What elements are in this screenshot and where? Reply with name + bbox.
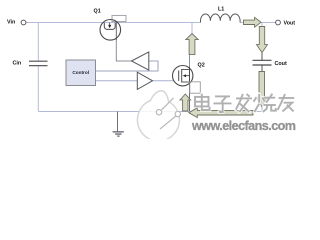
Q1 arrow down	[109, 23, 111, 25]
watermark chinese characters	[195, 94, 294, 113]
wire: control bottom output to driver2	[94, 80, 137, 82]
capacitor Cout	[253, 60, 272, 65]
wire: Cin branch upper	[37, 23, 39, 61]
current arrow down below Cout	[256, 72, 267, 107]
svg-text:Vout: Vout	[284, 21, 296, 27]
wire: Vin top rail	[26, 22, 192, 24]
wire: switch node vertical upper	[191, 23, 193, 35]
wire: Vout lead	[261, 22, 276, 24]
wire: Cout top branch	[261, 23, 263, 28]
current arrow right after L1	[244, 17, 262, 27]
ground	[113, 112, 124, 137]
transistor Q2	[173, 66, 201, 94]
wire: Cout lower lead	[261, 66, 263, 73]
Q2 channel bar	[181, 69, 183, 83]
Q1 channel U	[104, 23, 115, 30]
wire: inductor left lead	[192, 22, 201, 24]
transistor Q1	[100, 15, 126, 40]
wire: driver1 output to Q1 gate	[116, 38, 132, 61]
Q2 vertical through	[189, 67, 191, 85]
char you	[279, 97, 295, 99]
watermark logo	[137, 91, 180, 141]
current arrow up below Q2	[180, 94, 191, 111]
Q1 body circle	[100, 20, 121, 41]
wire: switch node vertical lower to Q2 drain	[189, 54, 191, 67]
wire: Cout upper lead	[261, 53, 263, 61]
Q1 gate line vertical	[115, 22, 117, 40]
svg-text:Vin: Vin	[7, 19, 15, 25]
control block	[66, 60, 96, 86]
capacitor Cin	[29, 61, 48, 65]
svg-text:Cin: Cin	[13, 61, 22, 67]
Q2 gate box	[190, 82, 201, 93]
wire: control top output to driver1 loop	[94, 61, 158, 71]
Q2 gate bar	[178, 71, 180, 82]
op-amp driver U1 (points left, drives Q1 gate)	[132, 52, 149, 70]
wire: driver2 output to Q2 gate	[153, 80, 175, 82]
svg-text:Cout: Cout	[275, 61, 287, 67]
inductor L1	[201, 14, 241, 23]
svg-text:Q1: Q1	[94, 9, 101, 15]
Q2 drain stub	[182, 69, 190, 71]
terminal Vin	[21, 20, 26, 25]
terminal Vout	[276, 20, 281, 25]
svg-text:www.elecfans.com: www.elecfans.com	[191, 119, 296, 133]
Q2 body arrow	[186, 75, 190, 77]
svg-text:Control: Control	[72, 70, 89, 75]
white halo pass	[195, 94, 294, 113]
wire: Cin branch lower	[37, 66, 39, 112]
Q2 body circle	[173, 66, 193, 86]
svg-text:L1: L1	[218, 7, 224, 13]
op-amp driver U2 (points right, drives Q2 gate)	[137, 72, 152, 89]
wire: inductor right lead to arrow	[240, 22, 244, 24]
Q2 source stub	[182, 81, 190, 83]
current arrow left along ground rail	[189, 108, 253, 118]
char dian	[195, 97, 209, 107]
current arrow down into Cout	[257, 27, 268, 53]
current arrow up at switch node	[186, 34, 198, 55]
char fa	[236, 97, 252, 99]
watermark url	[191, 119, 297, 134]
wire: Q2 source down to ground rail	[189, 85, 191, 112]
svg-text:Q2: Q2	[198, 63, 205, 69]
wire: bottom ground rail	[38, 111, 262, 113]
char zi	[215, 95, 230, 97]
wire: Cout bottom to rail	[261, 106, 263, 112]
Q1 gate box	[112, 15, 126, 21]
char shao	[258, 94, 260, 103]
gray stroke pass	[195, 94, 294, 113]
